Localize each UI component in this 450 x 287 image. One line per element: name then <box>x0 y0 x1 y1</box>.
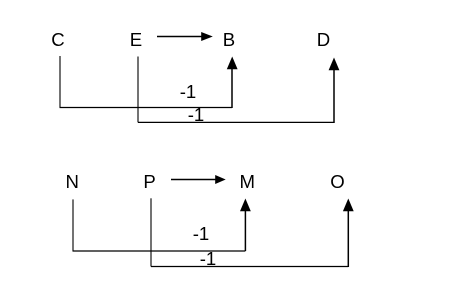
wire E down <box>137 57 139 123</box>
arrow up to O <box>343 199 354 268</box>
wire E to D horizontal <box>138 121 334 123</box>
svg-text:B: B <box>223 29 235 50</box>
svg-text:-1: -1 <box>180 81 197 102</box>
svg-text:C: C <box>51 29 64 50</box>
wire P to O horizontal <box>151 266 348 268</box>
svg-text:D: D <box>317 29 330 50</box>
arrow E to B <box>157 32 213 41</box>
arrow up to M <box>240 199 251 252</box>
wire N down <box>72 199 74 251</box>
svg-text:M: M <box>239 171 255 192</box>
wire N to M horizontal <box>73 250 246 252</box>
wire C to B horizontal <box>60 107 233 109</box>
arrow up to D <box>329 58 340 124</box>
arrow P to M <box>171 175 226 184</box>
svg-text:N: N <box>65 171 78 192</box>
svg-text:E: E <box>130 29 142 50</box>
svg-text:P: P <box>143 171 155 192</box>
arrow up to B <box>227 57 238 109</box>
svg-text:-1: -1 <box>193 223 210 244</box>
svg-text:-1: -1 <box>200 248 217 269</box>
wire C down <box>59 56 61 108</box>
svg-text:-1: -1 <box>188 104 205 125</box>
svg-text:O: O <box>330 171 344 192</box>
wire P down <box>150 198 152 266</box>
